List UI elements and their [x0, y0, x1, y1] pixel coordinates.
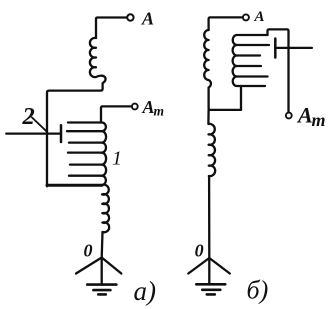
wire Am lead (fig a) — [101, 106, 132, 122]
counterpoise left prong (fig a) — [76, 258, 102, 274]
inductor L1 top coil (fig a) — [90, 38, 106, 83]
ground bar 2 (fig a) — [93, 289, 110, 292]
ground bar 1 (fig b) — [196, 283, 225, 286]
wire coil bottom to junction (fig b) — [240, 86, 242, 110]
ground bar 1 (fig a) — [87, 283, 116, 286]
slider arm (fig b) — [275, 47, 312, 49]
ground bar 3 (fig b) — [207, 293, 215, 296]
ground bar 3 (fig a) — [98, 293, 106, 296]
ground bar 2 (fig b) — [202, 288, 220, 291]
svg-text:2: 2 — [22, 103, 35, 130]
wire A lead (fig b) — [209, 17, 243, 30]
wire coil to ground (fig b) — [208, 176, 210, 283]
svg-text:б): б) — [247, 276, 269, 305]
terminal Am (fig a) — [132, 104, 138, 110]
svg-text:0: 0 — [84, 241, 93, 261]
contact bar slider (fig b) — [274, 39, 277, 58]
coil 1 bottom turn bar joining tap bus (fig a) — [47, 184, 102, 187]
terminal A (fig a) — [127, 14, 133, 20]
terminal Am (fig b) — [286, 113, 292, 119]
wire junction bus (fig a) — [47, 84, 103, 187]
contact bar element 2 (fig a) — [60, 125, 63, 142]
svg-text:m: m — [312, 110, 326, 130]
svg-text:A: A — [254, 9, 265, 25]
wire coil top to Am (fig b) — [268, 29, 289, 112]
counterpoise right prong (fig a) — [102, 258, 122, 274]
counterpoise right prong (fig b) — [209, 258, 230, 274]
coil 1 turn bars (fig a) — [68, 121, 102, 123]
svg-text:A: A — [296, 103, 313, 128]
inductor L2 lower coil (fig a) — [102, 185, 109, 233]
svg-text:0: 0 — [195, 241, 204, 261]
wire A lead (fig a) — [96, 18, 127, 39]
counterpoise left prong (fig b) — [188, 258, 209, 274]
inductor L3 left coil (fig b) — [204, 30, 241, 110]
leader line from label 2 — [32, 118, 47, 132]
coil 1 right side loops (fig a) — [102, 122, 106, 185]
slider arm element 2 (fig a) — [6, 132, 59, 134]
coil left side loops (fig b) — [233, 35, 237, 86]
terminal A (fig b) — [243, 14, 249, 20]
svg-text:A: A — [141, 9, 154, 29]
svg-text:а): а) — [134, 276, 157, 306]
svg-text:1: 1 — [112, 148, 122, 170]
inductor L4 lower coil (fig b) — [208, 110, 215, 176]
wire coil to ground (fig a) — [101, 232, 104, 283]
coil turn bars (fig b) — [237, 34, 268, 36]
svg-text:m: m — [154, 104, 165, 119]
